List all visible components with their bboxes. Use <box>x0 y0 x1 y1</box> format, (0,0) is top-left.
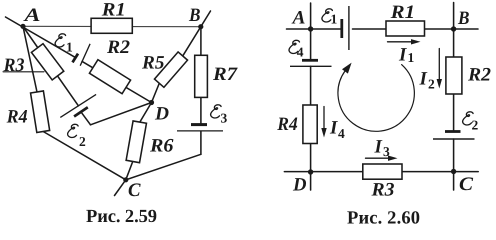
wire R7 to e3 <box>200 97 202 123</box>
arrowhead I4 <box>321 128 326 138</box>
svg-text:2: 2 <box>428 77 435 92</box>
svg-text:I: I <box>374 137 383 158</box>
arrowhead I1 <box>411 39 421 44</box>
battery e3 long plate (fig 2.59) <box>177 130 223 132</box>
svg-text:R4: R4 <box>276 114 297 135</box>
wire left side e4 through R4 and D down <box>310 66 312 190</box>
svg-text:R5: R5 <box>141 53 165 74</box>
wire A through R3 to e2 long plate <box>23 27 78 106</box>
resistor R1 (fig 2.60) <box>386 21 425 36</box>
svg-text:C: C <box>459 174 473 195</box>
svg-text:R6: R6 <box>149 136 174 157</box>
svg-text:A: A <box>23 5 40 26</box>
wire R6 to C with tick below C <box>115 162 133 196</box>
resistor R2 (fig 2.60) <box>446 57 462 94</box>
svg-text:1: 1 <box>408 50 415 65</box>
wire vertical above B down to e2 <box>453 3 455 131</box>
svg-text:2: 2 <box>472 118 479 133</box>
svg-text:D: D <box>292 175 307 196</box>
label e2 (fig 2.60) <box>463 112 479 133</box>
battery e1 short plate (fig 2.60) <box>340 19 343 38</box>
label e2 (fig 2.59) <box>68 124 86 149</box>
svg-text:2: 2 <box>79 134 86 149</box>
arrowhead I2 <box>437 79 442 89</box>
label e1 (fig 2.60) <box>322 9 338 27</box>
R3 label underline (fig 2.59) <box>3 71 44 73</box>
svg-text:R2: R2 <box>467 65 492 86</box>
svg-text:B: B <box>188 5 200 26</box>
node D (fig 2.60) <box>308 169 313 174</box>
label I1 (fig 2.60) <box>398 45 415 66</box>
resistor R7 (fig 2.59) <box>195 55 208 97</box>
resistor R4 (fig 2.60) <box>303 105 317 144</box>
wire tick above B and B to R5 <box>183 11 211 56</box>
battery e4 short plate (fig 2.60) <box>302 59 318 62</box>
node C (fig 2.59) <box>123 177 128 182</box>
wire A to R4 <box>23 27 37 93</box>
label e1 (fig 2.59) <box>55 34 73 55</box>
wire e3 to corner <box>200 131 202 154</box>
svg-text:R7: R7 <box>212 64 239 85</box>
svg-text:3: 3 <box>383 144 390 159</box>
wire A-R1-B (top horizontal) <box>23 25 201 27</box>
label e3 (fig 2.59) <box>211 105 228 126</box>
svg-text:D: D <box>154 104 169 125</box>
wire e1 to R2 to D <box>82 61 151 102</box>
arrowhead I3 <box>388 156 398 161</box>
battery e1 long plate (fig 2.60) <box>348 6 350 50</box>
svg-text:R1: R1 <box>390 2 416 23</box>
wire D to R6 <box>140 103 152 123</box>
label e4 (fig 2.60) <box>289 40 304 59</box>
wire R4 to C <box>43 132 126 180</box>
wire bend to D <box>91 103 152 125</box>
svg-text:4: 4 <box>338 126 345 141</box>
battery e4 long plate (fig 2.60) <box>290 65 332 67</box>
current arrow I4 <box>323 107 325 130</box>
current arrow I2 <box>438 49 440 81</box>
wire e2 short plate to bend <box>81 112 91 125</box>
resistor R1 (fig 2.59) <box>91 18 132 33</box>
svg-text:1: 1 <box>66 40 73 55</box>
wire top stub left of A <box>287 28 341 30</box>
node A (fig 2.60) <box>308 26 313 31</box>
wire B to R7 <box>200 27 202 56</box>
label I2 (fig 2.60) <box>419 69 436 92</box>
svg-text:Рис. 2.60: Рис. 2.60 <box>347 209 420 229</box>
svg-text:3: 3 <box>221 111 228 126</box>
battery e2 short plate (fig 2.59) <box>74 107 88 116</box>
wire corner to C <box>126 154 201 180</box>
svg-text:B: B <box>457 8 469 29</box>
node D (fig 2.59) <box>149 100 154 105</box>
svg-text:R4: R4 <box>6 107 28 128</box>
resistor R6 (fig 2.59) <box>126 121 146 163</box>
svg-text:C: C <box>128 180 141 201</box>
svg-text:Рис. 2.59: Рис. 2.59 <box>86 207 157 227</box>
wire bottom D-C <box>284 171 478 173</box>
resistor R3 (fig 2.60) <box>363 164 402 179</box>
svg-text:R3: R3 <box>3 55 25 76</box>
wire e1 to R1 to B to right stub <box>353 28 479 30</box>
node C (fig 2.60) <box>451 169 456 174</box>
battery e1 short plate (fig 2.59) <box>73 54 79 63</box>
svg-text:I: I <box>398 45 407 66</box>
current arrow I3 <box>366 157 391 159</box>
resistor R4 (fig 2.59) <box>31 91 50 133</box>
arrowhead loop arc <box>342 63 352 74</box>
svg-text:R3: R3 <box>370 180 394 201</box>
wire vertical above A <box>310 3 312 59</box>
svg-text:4: 4 <box>297 45 304 60</box>
svg-text:A: A <box>291 8 305 29</box>
resistor R5 (fig 2.59) <box>154 52 187 87</box>
svg-text:1: 1 <box>331 12 338 27</box>
battery e2 long plate (fig 2.59) <box>60 94 96 117</box>
svg-text:I: I <box>329 118 338 139</box>
loop direction arc <box>338 65 414 132</box>
svg-text:R2: R2 <box>106 37 131 58</box>
resistor R2 (fig 2.59) <box>89 60 130 94</box>
node A (fig 2.59) <box>20 24 25 29</box>
node B (fig 2.60) <box>451 26 456 31</box>
battery e3 short plate (fig 2.59) <box>191 123 207 126</box>
resistor R3 (fig 2.59) <box>31 44 63 80</box>
wire A to e1 (with tick beyond A) <box>6 17 76 57</box>
node B (fig 2.59) <box>198 24 203 29</box>
wire R5 to D <box>152 83 160 103</box>
svg-text:I: I <box>419 69 428 90</box>
label I3 (fig 2.60) <box>374 137 391 160</box>
current arrow I1 <box>388 41 413 43</box>
label I4 (fig 2.60) <box>329 118 345 141</box>
wire right side below e2 through C down <box>453 139 455 190</box>
svg-text:R1: R1 <box>101 0 126 20</box>
battery e2 short plate (fig 2.60) <box>445 130 461 133</box>
battery e1 long plate (fig 2.59) <box>80 44 90 66</box>
battery e2 long plate (fig 2.60) <box>433 138 475 140</box>
